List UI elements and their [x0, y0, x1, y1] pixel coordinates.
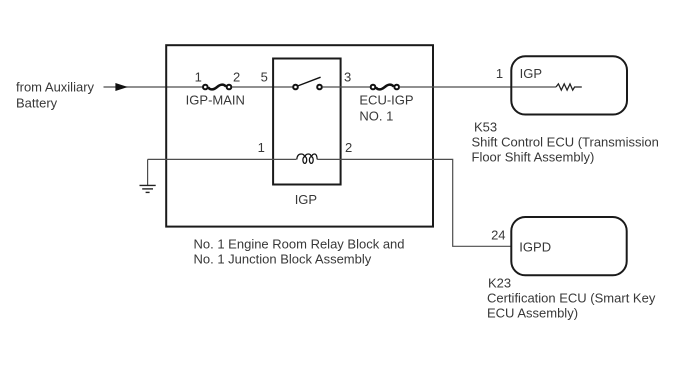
- svg-text:IGP-MAIN: IGP-MAIN: [186, 92, 245, 107]
- svg-text:2: 2: [345, 140, 352, 155]
- svg-text:No. 1 Engine Room Relay Block: No. 1 Engine Room Relay Block and: [194, 236, 405, 251]
- wire fuse to relay switch: [232, 86, 293, 88]
- node: from Auxiliary Battery label: [16, 80, 95, 111]
- svg-text:IGP: IGP: [520, 66, 542, 81]
- svg-text:3: 3: [344, 70, 351, 85]
- svg-text:NO. 1: NO. 1: [359, 109, 393, 124]
- svg-text:5: 5: [261, 70, 268, 85]
- ground: [140, 185, 156, 192]
- svg-text:ECU-IGP: ECU-IGP: [359, 93, 413, 108]
- wire fuse to K53 connector: [400, 86, 512, 88]
- caption: No. 1 Engine Room Relay Block and No. 1 Junction Block Assembly: [194, 236, 405, 266]
- No. 1 Engine Room Relay Block (outer box): [166, 45, 433, 226]
- K23 caption: [487, 276, 656, 321]
- svg-text:K23: K23: [488, 276, 511, 291]
- svg-text:No. 1 Junction Block Assembly: No. 1 Junction Block Assembly: [194, 252, 372, 267]
- wire: vertical drop to ground: [147, 159, 149, 185]
- wire from battery into relay block: [104, 86, 203, 88]
- svg-text:K53: K53: [474, 120, 497, 135]
- K23 connector box: [511, 217, 626, 275]
- fuse ECU-IGP NO. 1: [371, 85, 399, 90]
- svg-text:IGPD: IGPD: [519, 240, 551, 255]
- svg-text:IGP: IGP: [295, 192, 317, 207]
- wire coil to K23 (right, down, right): [317, 159, 511, 246]
- switch blade (open): [298, 77, 321, 86]
- svg-text:1: 1: [195, 70, 202, 85]
- resistor inside K53: [512, 84, 582, 90]
- svg-text:Floor Shift Assembly): Floor Shift Assembly): [472, 150, 595, 165]
- wire ground to relay coil: [148, 158, 297, 160]
- svg-text:Shift Control ECU (Transmissio: Shift Control ECU (Transmission: [472, 135, 659, 150]
- relay IGP box: [273, 59, 341, 185]
- relay switch contacts: [293, 77, 322, 89]
- fuse IGP-MAIN: [203, 85, 231, 90]
- svg-text:Battery: Battery: [16, 96, 58, 111]
- svg-text:Certification ECU (Smart Key: Certification ECU (Smart Key: [487, 291, 656, 306]
- svg-text:from Auxiliary: from Auxiliary: [16, 80, 95, 95]
- K53 connector box: [511, 56, 627, 114]
- svg-text:ECU Assembly): ECU Assembly): [487, 305, 578, 320]
- wire relay to fuse ECU-IGP: [322, 86, 370, 88]
- K53 caption: [472, 120, 659, 165]
- relay coil: [297, 154, 317, 163]
- svg-text:2: 2: [233, 70, 240, 85]
- svg-text:1: 1: [258, 140, 265, 155]
- svg-text:1: 1: [496, 66, 503, 81]
- svg-text:24: 24: [491, 228, 505, 243]
- arrow: current direction: [115, 83, 127, 91]
- value label ECU-IGP NO. 1: [359, 93, 413, 124]
